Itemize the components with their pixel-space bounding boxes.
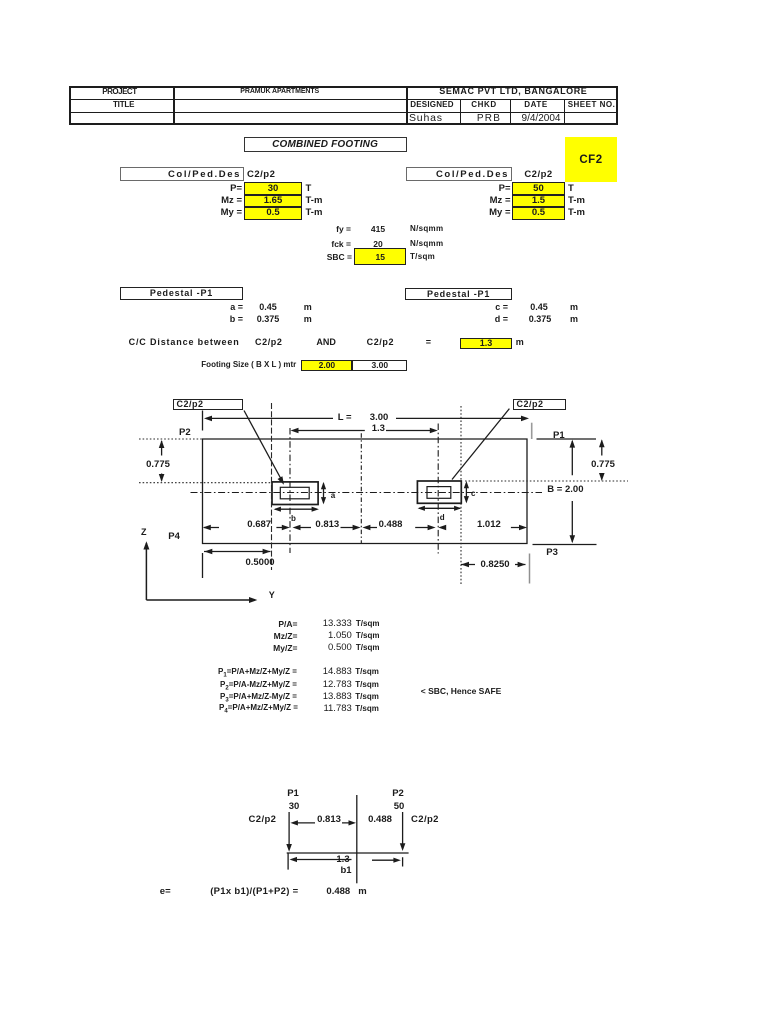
bottom dimension chain line 0.687/0.813/0.488/1.012 [204,527,520,529]
footing centre line (dash-dot vertical) [360,433,362,543]
pedestal d dimension line [419,507,460,509]
arrowheads: d dimension [418,506,425,511]
gray gridline stub below right C2/p2 label [531,423,533,439]
P1 load arrow stem [288,812,290,850]
dimension text 0.5000 [240,558,280,568]
arrowhead: P1 load [286,844,292,852]
arrowheads: b1 span [290,857,298,862]
arrowheads: 0.775 left [159,440,165,448]
dimension 0.775 left vertical line [161,441,163,481]
arrowheads: 0.8250 [461,562,469,568]
dimension text 0.775 right [585,460,621,470]
dimension 1.3 line (top) [296,430,431,432]
dotted extension line left of footing top edge [139,438,202,440]
safety remark [421,687,502,696]
arrowheads: b dimension [274,507,281,512]
footing top edge right extension (under P1) [537,438,597,440]
dotted extension line at pedestal top level (right) [465,480,628,482]
pedestal P2 centre line (dash-dot vertical) [437,424,439,554]
arrowheads: B=2.00 [570,440,576,448]
arrowheads: 0.5000 [204,549,212,555]
dimension 0.8250 line [461,564,526,566]
horizontal centre line (dash-dot) through pedestals [191,492,543,494]
extension tick below footing left edge [202,553,204,578]
dimension B=2.00 vertical line [571,441,573,542]
dimension text 0.8250 [475,560,515,570]
footing outline [203,439,528,544]
pedestal c dimension line [465,483,467,502]
gray extension tick right of 0.8250 dimension [529,554,531,584]
pedestal a dimension line [323,484,325,503]
leader line from left C2/p2 label [244,411,281,479]
dimension 0.5000 line [204,551,271,553]
grid labels P1 P2 P3 P4 [179,428,191,438]
arrowheads: 0.813 span [290,820,298,825]
arrowheads: a dimension [321,482,326,489]
dashed extension line through pedestal P1 left face [271,403,273,570]
right C2/p2 label box [513,399,566,410]
left C2/p2 label box [173,399,243,411]
dimension text L = 3.00 [338,413,352,423]
arrowhead: P2 load [400,843,406,851]
axis labels [141,528,147,537]
dimension 0.775 right vertical line [601,441,603,480]
0.813 arrow lines [296,822,352,824]
arrowhead: left leader [278,476,285,485]
pedestal P1 centre line (dash-dot vertical) [289,428,291,553]
pedestal P1 inner rectangle [280,487,309,499]
dimension text 1.3 [372,424,385,434]
pedestal P2 outer rectangle [417,481,461,503]
arrowheads: bottom dimension chain [203,525,211,531]
stem below left C2/p2 label box [202,411,204,431]
centre axis vertical line [356,795,358,883]
arrowheads: 1.3 dimension [291,428,299,434]
arrowheads: L dimension [204,416,212,422]
bottom dimension chain texts [241,520,277,530]
pedestal P1 outer rectangle [272,482,318,505]
base line [287,852,409,854]
pedestal b dimension line [275,508,317,510]
leader line from right C2/p2 label [452,409,509,480]
Z-Y axes [146,543,255,600]
arrowheads: c dimension [464,481,469,488]
pedestal letter labels [331,492,335,500]
arrowheads: 0.775 right [599,439,605,447]
dimension L line [206,417,522,419]
b1 dimension lines and ticks [288,853,403,870]
label B = 2.00 [547,485,583,495]
dimension text 0.775 left [140,460,176,470]
pedestal P2 inner rectangle [427,487,451,499]
dotted extension line at pedestal top level (left) [139,482,271,484]
arrowheads: Z and Y axes [143,541,149,549]
dotted extension line through pedestal P2 right face [460,406,462,585]
P2 load arrow stem [402,812,404,849]
footing bottom edge right extension (above P3) [533,544,597,546]
